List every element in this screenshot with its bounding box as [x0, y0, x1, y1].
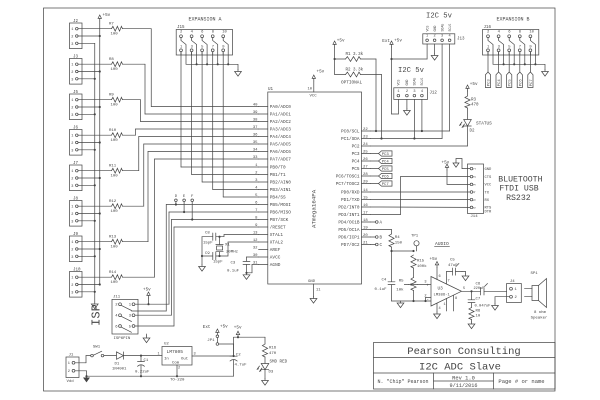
mcu pin 6 PB5/MOSI: [255, 202, 291, 209]
svg-text:PD1/TXD: PD1/TXD: [341, 198, 360, 203]
wire ISP pin3 SCK riser: [135, 314, 172, 316]
svg-text:SDA5: SDA5: [413, 78, 417, 86]
wire AVCC to C3: [247, 256, 259, 258]
net flag PC4 on mcu: [371, 158, 393, 164]
svg-text:2: 2: [71, 178, 73, 182]
svg-text:J16: J16: [484, 26, 492, 30]
svg-text:12: 12: [253, 239, 258, 243]
svg-text:+5v: +5v: [317, 70, 325, 75]
svg-text:38: 38: [253, 119, 258, 123]
svg-text:Ext: Ext: [382, 39, 390, 44]
mcu pin 13 XTAL1: [253, 232, 284, 239]
svg-text:5: 5: [129, 325, 132, 329]
svg-text:I2C 5v: I2C 5v: [426, 13, 453, 21]
wire R16 top: [264, 337, 266, 344]
svg-text:15: 15: [363, 197, 368, 201]
wire +5v to R1 R2: [334, 47, 336, 75]
svg-text:AGND: AGND: [270, 263, 281, 268]
mcu pin 17 PD3/INT1: [338, 212, 370, 219]
mcu pin 22 PC0/SCL: [341, 128, 370, 135]
svg-text:SCL5: SCL5: [448, 24, 452, 32]
mcu pin 4 PB3/AIN1: [255, 187, 291, 194]
svg-text:J13: J13: [457, 38, 465, 42]
net bubble B: [371, 236, 383, 241]
svg-text:PB0/T0: PB0/T0: [270, 166, 286, 171]
resistor R9 100: [109, 94, 123, 108]
svg-text:10: 10: [476, 315, 481, 319]
svg-text:Out: Out: [181, 358, 188, 362]
wire R13 to MCU PA6: [123, 152, 259, 242]
svg-text:R15: R15: [417, 260, 425, 264]
svg-text:J3: J3: [73, 56, 79, 60]
svg-text:47uF: 47uF: [448, 264, 458, 268]
wire PD1 to J14 RX: [371, 199, 471, 201]
svg-text:7: 7: [212, 45, 214, 49]
ground J4: [494, 304, 496, 306]
svg-text:CTS: CTS: [485, 176, 493, 180]
svg-text:J2: J2: [73, 20, 79, 24]
svg-text:PC6: PC6: [519, 79, 523, 87]
svg-text:1: 1: [71, 135, 73, 139]
svg-text:J10: J10: [73, 269, 81, 273]
svg-text:1: 1: [129, 304, 132, 308]
wire XTAL2 net: [219, 242, 259, 256]
connector J16 expansion B: [483, 26, 539, 55]
wire J5 pin2 to +5v bus: [78, 106, 101, 108]
svg-text:VCC: VCC: [310, 95, 318, 99]
svg-text:3: 3: [71, 185, 73, 189]
svg-text:PC1/SDA: PC1/SDA: [341, 137, 360, 142]
wire R1 left: [335, 58, 346, 60]
svg-text:4: 4: [115, 315, 118, 319]
net flag PC5 on J16: [507, 52, 513, 88]
mcu pin 1 PB0/T0: [255, 164, 286, 171]
svg-text:J9: J9: [73, 233, 79, 237]
svg-text:1: 1: [515, 288, 518, 292]
wire J2 pin3 to gnd bus: [78, 42, 95, 44]
svg-text:RX: RX: [485, 199, 490, 203]
net flag PC7 on mcu: [371, 181, 393, 187]
wire ISP pin1 MISO riser: [135, 303, 169, 305]
svg-text:6: 6: [115, 325, 118, 329]
ground J12 pin2: [406, 99, 408, 108]
switch SW1: [91, 354, 94, 357]
svg-text:U3: U3: [438, 287, 444, 292]
svg-text:3: 3: [71, 114, 73, 118]
crystal X1 20MHz: [219, 237, 221, 245]
svg-text:2: 2: [180, 31, 183, 35]
wire D2 to PC2: [467, 126, 469, 146]
svg-text:PB5/MOSI: PB5/MOSI: [270, 203, 291, 208]
svg-text:VC5: VC5: [425, 26, 429, 32]
svg-text:GND: GND: [405, 80, 409, 86]
wire SCL net: [371, 130, 450, 132]
svg-text:7: 7: [519, 45, 521, 49]
resistor R3 470: [467, 91, 469, 96]
wire ISP pin4 MOSI riser: [132, 310, 167, 312]
opamp power pin6 +5v: [436, 268, 438, 280]
svg-text:17: 17: [363, 212, 368, 216]
svg-text:PC6/TOSC1: PC6/TOSC1: [336, 175, 360, 180]
svg-text:R10: R10: [109, 129, 117, 133]
svg-text:R9: R9: [109, 94, 114, 98]
svg-text:C5: C5: [450, 259, 455, 263]
svg-text:8: 8: [212, 31, 215, 35]
svg-text:U2: U2: [164, 343, 169, 347]
mcu pin 25 PC3: [352, 151, 371, 158]
power flag +5v status: [467, 87, 469, 92]
wire J7 pin1 to R11: [78, 170, 111, 172]
wire PD3 to J14 CTS: [371, 214, 401, 216]
ground J16: [542, 70, 549, 77]
svg-text:36: 36: [253, 134, 258, 138]
svg-text:SDA5: SDA5: [440, 24, 444, 32]
wire R14 to MCU PA7: [123, 159, 259, 277]
svg-text:PC5: PC5: [509, 79, 513, 87]
wire J7 pin3 to gnd bus: [78, 184, 96, 186]
svg-text:150: 150: [395, 242, 403, 246]
wire J1 pin2 to gnd rail: [75, 370, 87, 372]
svg-text:Speaker: Speaker: [531, 316, 548, 321]
mcu pin 31 AGND: [253, 262, 281, 269]
svg-text:A: A: [380, 222, 383, 226]
svg-text:1: 1: [444, 303, 446, 307]
ground J13 pin2: [434, 44, 436, 54]
svg-text:PC5: PC5: [352, 167, 360, 172]
wire J3 pin3 to gnd bus: [78, 78, 96, 80]
svg-text:1: 1: [158, 353, 160, 357]
svg-text:PA0/ADC0: PA0/ADC0: [270, 105, 291, 110]
mcu pin 36 PA4/ADC4: [253, 134, 291, 141]
power flag Ext +5v top: [391, 43, 393, 48]
svg-text:U1: U1: [268, 88, 274, 92]
svg-text:2: 2: [71, 36, 73, 40]
svg-text:5: 5: [463, 287, 465, 291]
wire PD2 to J14 RTS: [371, 206, 471, 208]
mcu U1 ATmega164PA box: [268, 92, 362, 284]
svg-text:Com: Com: [172, 362, 180, 366]
wire ISP pin5 RESET riser: [135, 325, 174, 327]
connector J6: [70, 127, 83, 155]
potentiometer R5 10k: [413, 268, 415, 278]
svg-text:/RESET: /RESET: [270, 226, 286, 231]
svg-text:PC4: PC4: [498, 79, 502, 87]
wire R2 left: [335, 74, 346, 76]
opamp pin4 ground: [436, 303, 438, 312]
mcu pin 29 PC7/TOSC2: [336, 181, 371, 188]
svg-text:FTDI USB: FTDI USB: [499, 185, 538, 194]
mcu pin 20 PD6/ICP1: [338, 234, 370, 241]
svg-text:11: 11: [316, 289, 321, 293]
wire gnd bus vertical: [94, 43, 96, 302]
wire J15 pin5 to MCU PB2: [202, 52, 258, 182]
svg-text:26: 26: [363, 158, 368, 162]
svg-text:R1 3.3k: R1 3.3k: [346, 52, 364, 57]
mcu pin 37 PA3/ADC3: [253, 126, 291, 133]
wire J6 pin1 to R10: [78, 134, 111, 136]
svg-text:10: 10: [529, 31, 534, 35]
svg-text:PD0/RXD: PD0/RXD: [341, 191, 360, 196]
wire J16 ground bus: [493, 55, 545, 70]
svg-text:1: 1: [180, 45, 183, 49]
svg-text:0.1uF: 0.1uF: [375, 288, 388, 292]
svg-text:19: 19: [363, 227, 368, 231]
svg-text:1: 1: [71, 64, 73, 68]
svg-text:100: 100: [111, 175, 119, 179]
svg-text:C8: C8: [205, 232, 210, 236]
svg-text:2: 2: [515, 296, 518, 300]
svg-text:STATUS: STATUS: [476, 122, 492, 127]
wire J4 pin2 to gnd: [495, 296, 510, 298]
svg-text:4: 4: [421, 90, 423, 94]
ground C5: [462, 271, 466, 273]
wire R2 to SDA: [361, 74, 382, 76]
svg-text:Page # or name: Page # or name: [498, 378, 544, 385]
connector J5: [70, 91, 83, 119]
svg-text:PC3: PC3: [352, 152, 360, 157]
svg-text:10: 10: [222, 31, 227, 35]
capacitor C7 0.047uF: [471, 291, 473, 299]
mcu pin 33 PA7/ADC7: [253, 156, 291, 163]
net flag PC7 on J16: [528, 52, 534, 88]
wire R4 to junction: [391, 247, 393, 251]
svg-text:PC6: PC6: [382, 176, 390, 180]
svg-text:C3: C3: [231, 262, 236, 266]
wire PD0 to J14 TX: [371, 191, 471, 193]
resistor R16 470: [262, 344, 267, 357]
svg-text:6: 6: [473, 207, 477, 209]
svg-text:8: 8: [519, 31, 522, 35]
wire C4 down: [391, 251, 393, 282]
svg-text:2: 2: [71, 284, 73, 288]
wire J1 pin1 to SW1: [75, 362, 86, 364]
svg-text:PC7/TOSC2: PC7/TOSC2: [336, 182, 360, 187]
wire Out up to JP1: [233, 344, 235, 356]
wire J3 pin2 to +5v bus: [78, 70, 101, 72]
svg-text:14: 14: [363, 189, 368, 193]
svg-text:470: 470: [269, 352, 277, 356]
svg-text:PC4: PC4: [352, 160, 360, 165]
svg-text:PC7: PC7: [530, 79, 534, 87]
mcu pin 16 PD2/INT0: [338, 204, 370, 211]
mcu pin 3 PB2/AIN0: [255, 179, 291, 186]
svg-text:Rev 1.0: Rev 1.0: [452, 376, 475, 382]
wire D1 to U2 In: [124, 355, 163, 357]
net bubble D: [175, 195, 178, 205]
svg-text:2: 2: [473, 176, 477, 178]
svg-text:220uF: 220uF: [474, 287, 485, 291]
ground crystal: [201, 265, 203, 267]
ground D3: [264, 379, 266, 381]
svg-text:100: 100: [111, 33, 119, 37]
svg-text:9: 9: [255, 224, 258, 228]
wire J12 pin3 SDA: [413, 99, 415, 138]
svg-text:GND: GND: [308, 280, 316, 284]
ground J1: [86, 376, 88, 378]
connector J4 speaker: [507, 284, 522, 303]
mcu pin 15 PD1/TXD: [341, 197, 370, 204]
svg-text:3: 3: [424, 281, 426, 285]
svg-text:GND: GND: [433, 26, 437, 32]
svg-text:ISP: ISP: [90, 304, 104, 326]
mcu pin 34 PA6/ADC6: [253, 149, 291, 156]
power flag +5v left bus: [99, 17, 101, 22]
svg-text:PA4/ADC4: PA4/ADC4: [270, 135, 291, 140]
svg-text:21: 21: [363, 242, 368, 246]
svg-text:C: C: [380, 244, 383, 248]
svg-text:GND: GND: [485, 168, 493, 172]
wire opamp out: [462, 290, 481, 292]
connector J11 ISP: [112, 296, 138, 341]
svg-text:3: 3: [71, 78, 73, 82]
jumper JP1: [216, 335, 219, 338]
resistor R6 10: [469, 308, 474, 320]
svg-text:23: 23: [363, 136, 368, 140]
svg-text:R4: R4: [395, 236, 400, 240]
resistor R13 100: [109, 236, 123, 250]
ground C3: [246, 273, 248, 275]
svg-text:1: 1: [71, 277, 73, 281]
svg-text:In: In: [164, 358, 169, 362]
net bubble E: [183, 195, 186, 213]
svg-text:PC3: PC3: [488, 79, 492, 87]
svg-text:8 ohm: 8 ohm: [534, 310, 547, 315]
wire J5 pin3 to gnd bus: [78, 113, 96, 115]
mcu pin 28 PC6/TOSC1: [336, 173, 371, 180]
svg-text:PD4/OC1B: PD4/OC1B: [338, 221, 359, 226]
svg-text:3: 3: [498, 45, 501, 49]
svg-text:PB3/AIN1: PB3/AIN1: [270, 188, 291, 193]
svg-text:32: 32: [253, 247, 258, 251]
svg-text:F: F: [191, 195, 194, 199]
power flag +5v ISP: [148, 294, 150, 299]
wire -in from rail: [425, 298, 427, 302]
svg-text:4: 4: [473, 191, 477, 193]
svg-text:15pF: 15pF: [203, 242, 213, 246]
svg-text:2: 2: [71, 142, 73, 146]
svg-text:+5v: +5v: [430, 257, 438, 262]
led D3 SMD RED: [261, 364, 269, 370]
svg-text:4: 4: [498, 31, 501, 35]
svg-text:AREF: AREF: [270, 248, 281, 253]
mcu pin 26 PC4: [352, 158, 371, 165]
net flag PC3 on mcu: [371, 151, 393, 157]
resistor R7 100: [109, 23, 123, 37]
svg-text:Vdd: Vdd: [67, 379, 75, 384]
svg-text:R5: R5: [399, 280, 404, 284]
svg-text:3: 3: [71, 291, 73, 295]
wire J8 pin3 to gnd bus: [78, 220, 96, 222]
svg-text:1: 1: [71, 99, 73, 103]
wire J12 pin1 to Ext+5v: [397, 99, 399, 114]
svg-text:9: 9: [529, 45, 532, 49]
svg-text:PB1/T1: PB1/T1: [270, 173, 286, 178]
svg-text:Ext: Ext: [203, 325, 211, 330]
svg-text:10k: 10k: [396, 288, 404, 293]
svg-text:+5v: +5v: [394, 39, 402, 44]
svg-text:TO-220: TO-220: [170, 379, 185, 383]
mcu pin 24 PC2: [352, 143, 371, 150]
svg-text:1: 1: [397, 90, 399, 94]
svg-text:PA6/ADC6: PA6/ADC6: [270, 150, 291, 155]
svg-text:5: 5: [201, 45, 204, 49]
svg-text:27: 27: [363, 166, 368, 170]
svg-text:4: 4: [255, 187, 258, 191]
resistor R10 100: [109, 129, 123, 143]
svg-text:39: 39: [253, 111, 258, 115]
svg-text:Pearson Consulting: Pearson Consulting: [407, 346, 520, 358]
title block: [374, 343, 556, 390]
svg-text:C2: C2: [236, 354, 241, 358]
wire J10 pin3 to gnd bus: [78, 291, 96, 293]
gnd rail bottom: [87, 375, 234, 377]
capacitor C3 0.1uF: [243, 261, 250, 263]
svg-text:LM7805: LM7805: [167, 349, 184, 355]
resistor R8 100: [109, 58, 123, 72]
wire +5v to R16: [234, 336, 265, 338]
svg-text:37: 37: [253, 126, 258, 130]
svg-text:34: 34: [253, 149, 258, 153]
mcu pin 19 PD5/OC1A: [338, 227, 370, 234]
resistor R14 100: [109, 271, 123, 285]
svg-text:+5v: +5v: [234, 326, 242, 331]
svg-text:R2 3.3k: R2 3.3k: [346, 68, 364, 73]
svg-text:PD7/OC2: PD7/OC2: [341, 243, 360, 248]
mcu pin 40 PA0/ADC0: [253, 104, 291, 111]
svg-text:PB6/MISO: PB6/MISO: [270, 211, 291, 216]
wire AGND join: [246, 265, 248, 273]
svg-text:+: +: [426, 283, 429, 288]
svg-text:6: 6: [255, 202, 258, 206]
svg-text:25: 25: [363, 151, 368, 155]
svg-text:1: 1: [68, 362, 70, 366]
svg-text:R11: R11: [109, 165, 117, 169]
svg-text:9: 9: [222, 45, 225, 49]
svg-text:EXPANSION A: EXPANSION A: [188, 17, 221, 23]
svg-text:1: 1: [255, 164, 258, 168]
svg-text:C6: C6: [476, 283, 481, 287]
svg-text:18: 18: [363, 219, 368, 223]
wire J15 ground bus: [186, 55, 238, 70]
net bubble C: [371, 243, 383, 248]
net flag PC4 on J16: [496, 52, 502, 88]
svg-text:D1: D1: [115, 363, 120, 367]
svg-text:6: 6: [439, 275, 441, 279]
svg-text:10: 10: [308, 88, 313, 92]
capacitor C8 15pF: [216, 236, 219, 238]
svg-text:3: 3: [191, 45, 194, 49]
resistor R4 150: [389, 234, 394, 247]
resistor R1 3.3k: [346, 57, 361, 62]
wire U2 Com to gnd rail: [176, 365, 178, 376]
svg-text:5: 5: [508, 45, 511, 49]
diode D1 1N4001: [117, 352, 124, 359]
connector J2: [70, 20, 83, 48]
svg-text:I2C ADC Slave: I2C ADC Slave: [419, 362, 501, 374]
svg-text:1N4001: 1N4001: [112, 368, 127, 372]
svg-text:6: 6: [508, 31, 511, 35]
svg-text:J7: J7: [73, 162, 79, 166]
svg-text:R7: R7: [109, 23, 114, 27]
wire D3 to gnd: [264, 370, 266, 379]
svg-text:R6: R6: [476, 310, 481, 314]
svg-text:PC2: PC2: [352, 145, 360, 150]
svg-text:PD3/INT1: PD3/INT1: [338, 213, 359, 218]
svg-text:33: 33: [253, 156, 258, 160]
svg-text:470: 470: [471, 104, 479, 108]
svg-text:C9: C9: [205, 252, 210, 256]
svg-text:J12: J12: [429, 91, 437, 95]
